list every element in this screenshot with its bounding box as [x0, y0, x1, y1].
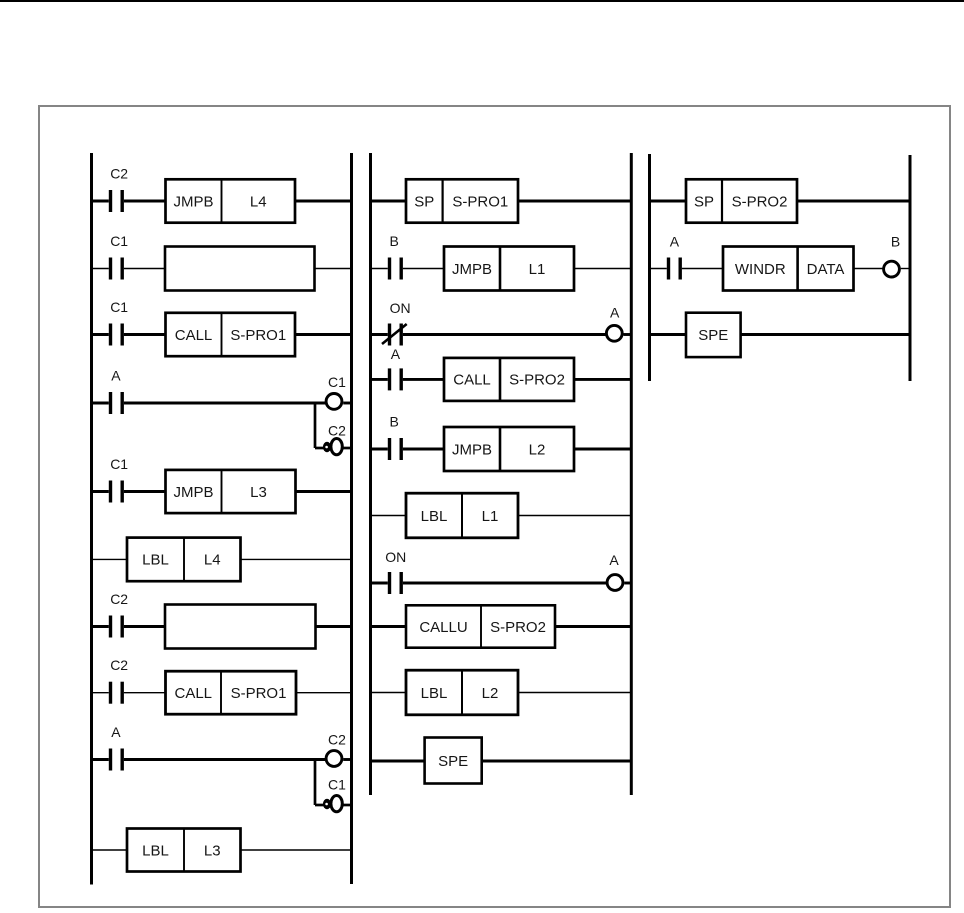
svg-text:L3: L3	[250, 484, 267, 501]
svg-text:L4: L4	[204, 552, 221, 569]
svg-text:JMPB: JMPB	[452, 261, 492, 278]
svg-text:ON: ON	[385, 549, 406, 565]
svg-text:S-PRO2: S-PRO2	[732, 193, 788, 210]
svg-text:L1: L1	[482, 508, 499, 525]
svg-text:C1: C1	[110, 456, 128, 472]
svg-text:C1: C1	[328, 374, 346, 390]
svg-text:JMPB: JMPB	[452, 441, 492, 458]
svg-text:L2: L2	[482, 685, 499, 702]
svg-text:B: B	[891, 234, 900, 250]
svg-text:A: A	[670, 234, 680, 250]
svg-text:C2: C2	[110, 166, 128, 182]
svg-text:WINDR: WINDR	[735, 261, 786, 278]
svg-text:DATA: DATA	[807, 261, 845, 278]
svg-text:C2: C2	[110, 657, 128, 673]
svg-text:L3: L3	[204, 842, 221, 859]
svg-text:A: A	[610, 304, 620, 320]
svg-text:B: B	[390, 233, 399, 249]
svg-text:LBL: LBL	[142, 842, 169, 859]
svg-text:JMPB: JMPB	[173, 484, 213, 501]
svg-text:A: A	[111, 368, 121, 384]
svg-text:CALL: CALL	[175, 327, 213, 344]
svg-text:S-PRO1: S-PRO1	[231, 685, 287, 702]
svg-text:LBL: LBL	[142, 552, 169, 569]
svg-text:L2: L2	[529, 441, 546, 458]
svg-text:S-PRO1: S-PRO1	[230, 327, 286, 344]
svg-text:S-PRO1: S-PRO1	[452, 193, 508, 210]
svg-text:B: B	[390, 414, 399, 430]
svg-text:LBL: LBL	[421, 685, 448, 702]
svg-text:LBL: LBL	[421, 508, 448, 525]
svg-text:CALLU: CALLU	[419, 619, 467, 636]
svg-text:CALL: CALL	[453, 372, 491, 389]
svg-text:S-PRO2: S-PRO2	[509, 372, 565, 389]
svg-text:A: A	[111, 724, 121, 740]
svg-text:L1: L1	[529, 261, 546, 278]
svg-text:CALL: CALL	[174, 685, 212, 702]
svg-text:C2: C2	[328, 732, 346, 748]
svg-text:SP: SP	[414, 193, 434, 210]
svg-text:SPE: SPE	[438, 753, 468, 770]
svg-text:C1: C1	[328, 777, 346, 793]
svg-text:A: A	[609, 552, 619, 568]
svg-text:C2: C2	[110, 591, 128, 607]
svg-text:A: A	[391, 346, 401, 362]
svg-text:S-PRO2: S-PRO2	[490, 619, 546, 636]
svg-text:SPE: SPE	[698, 327, 728, 344]
svg-text:L4: L4	[250, 193, 267, 210]
svg-text:ON: ON	[390, 300, 411, 316]
svg-text:JMPB: JMPB	[173, 193, 213, 210]
svg-text:SP: SP	[694, 193, 714, 210]
svg-text:C2: C2	[328, 423, 346, 439]
svg-text:C1: C1	[110, 233, 128, 249]
svg-text:C1: C1	[110, 299, 128, 315]
